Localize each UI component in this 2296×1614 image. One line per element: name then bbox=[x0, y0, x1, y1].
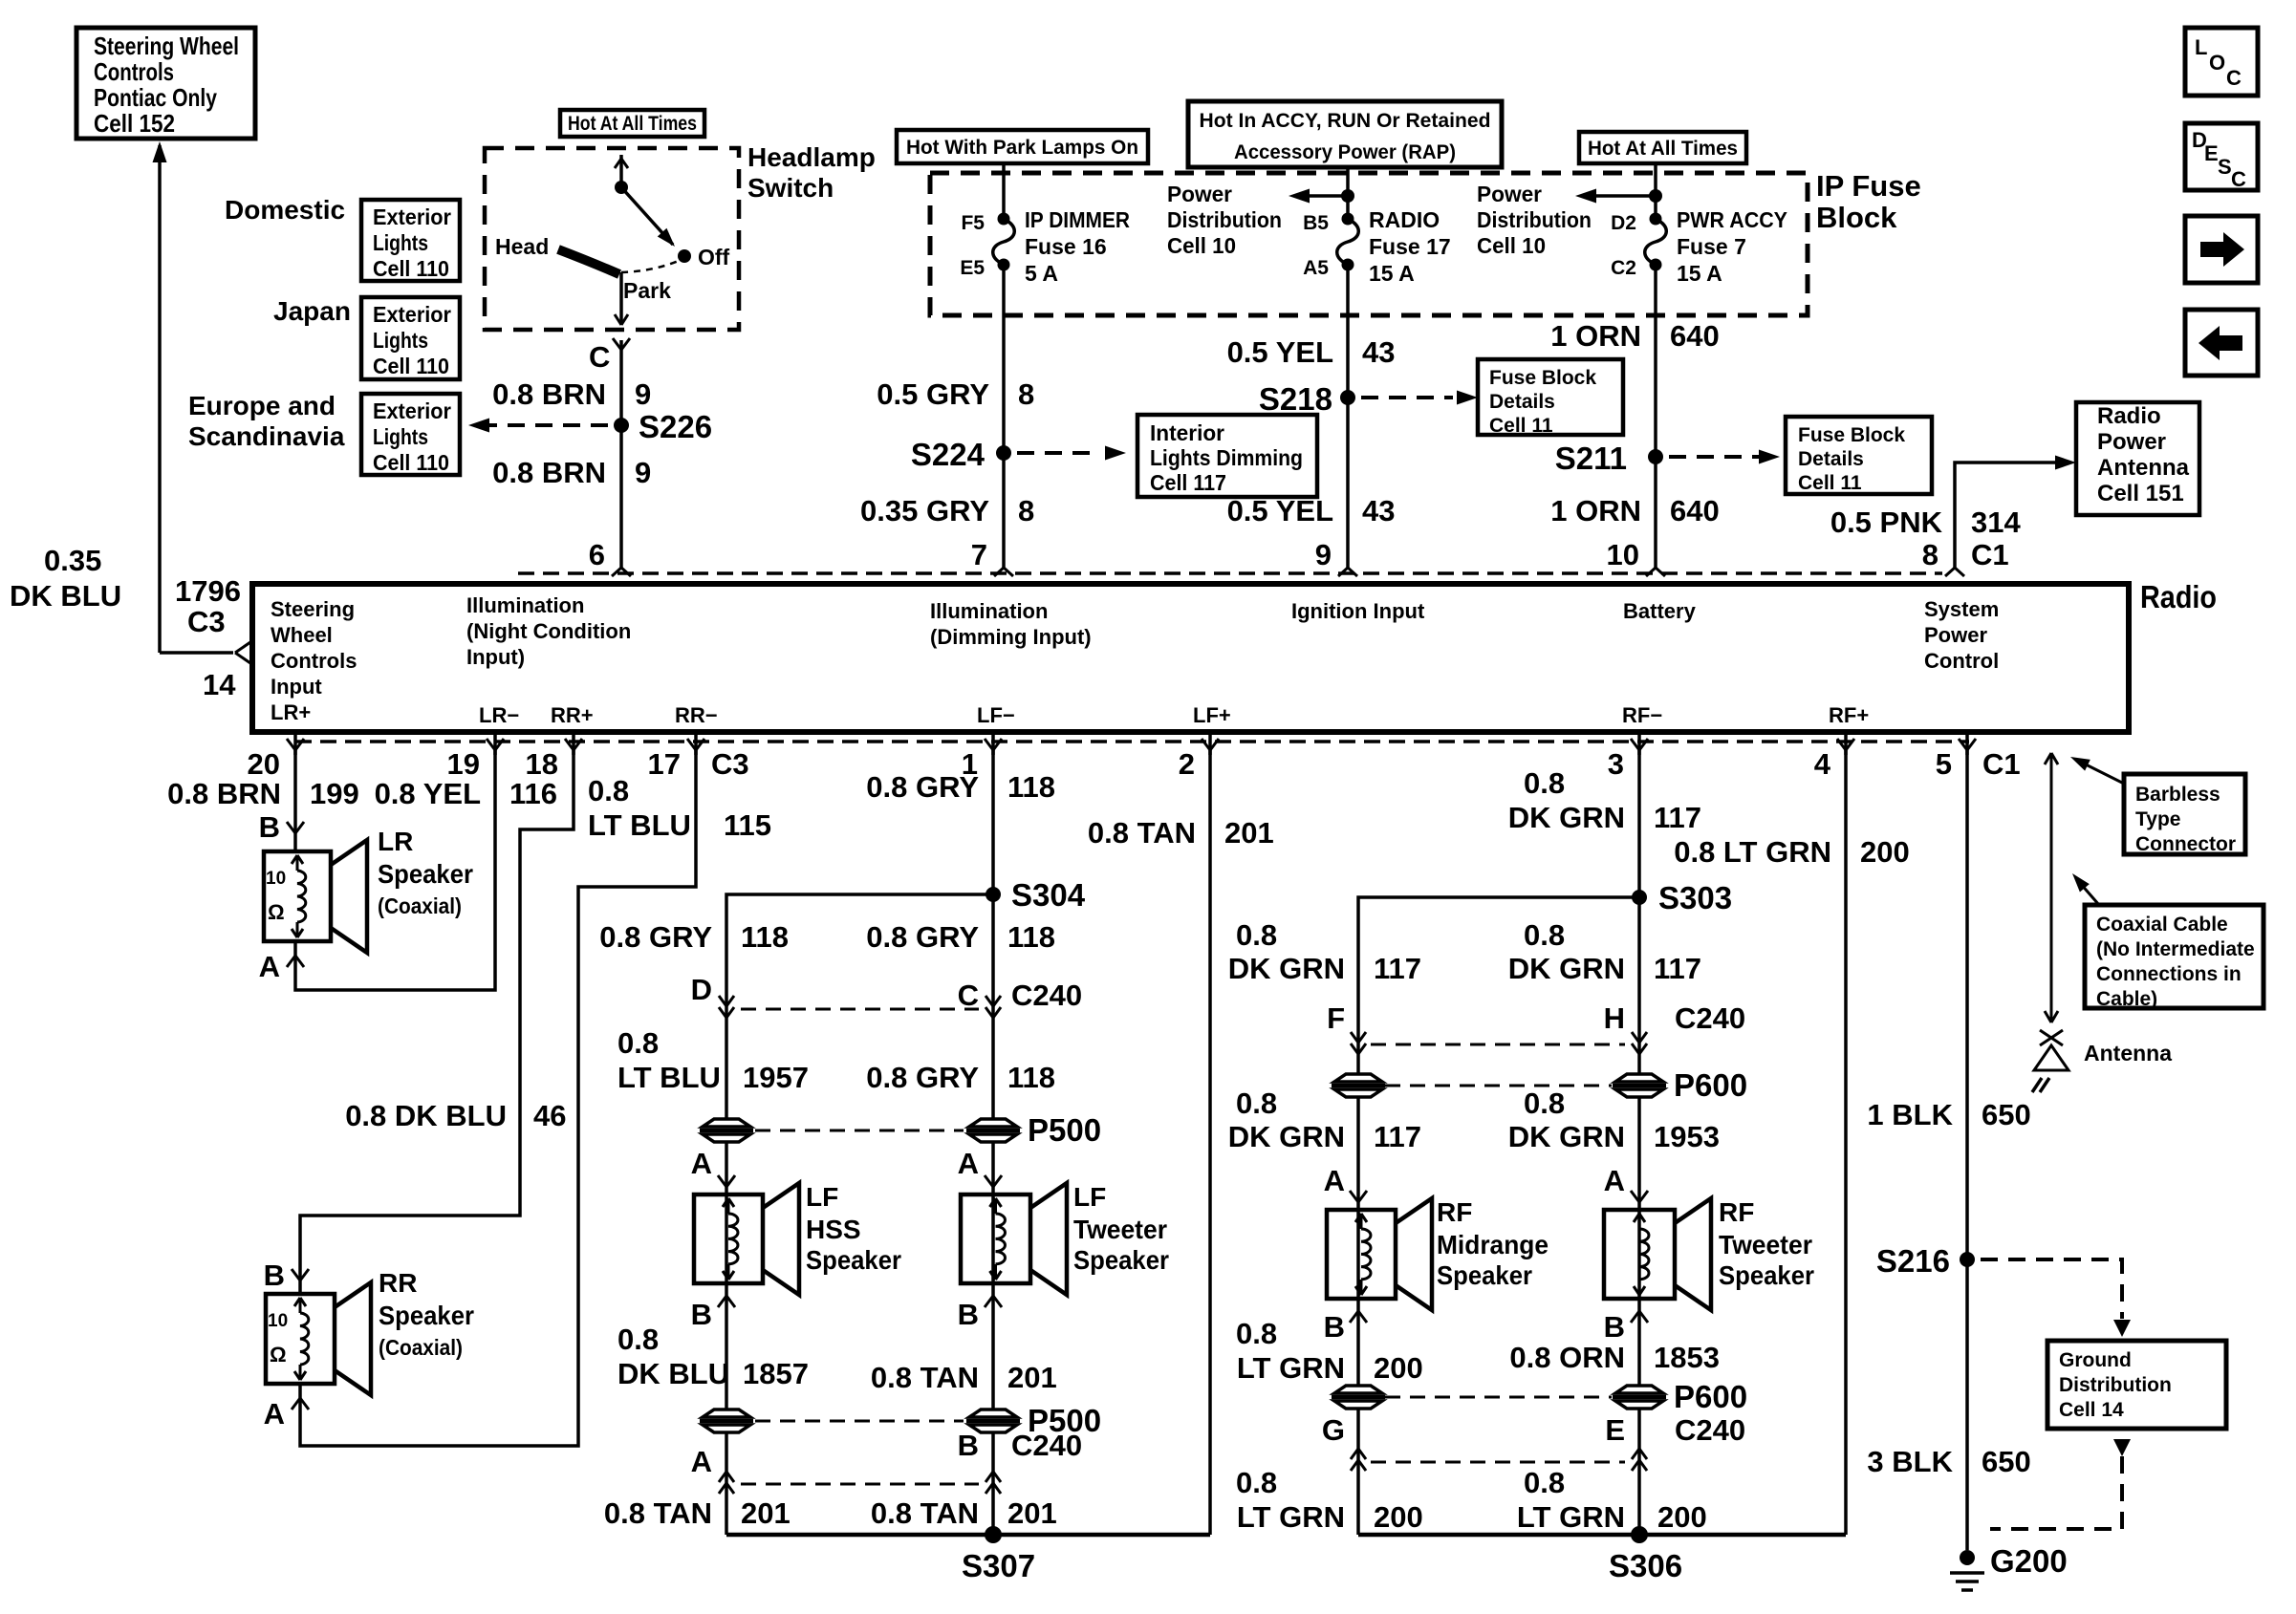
svg-text:D: D bbox=[691, 973, 712, 1006]
svg-text:0.8 GRY: 0.8 GRY bbox=[599, 920, 712, 954]
svg-text:Details: Details bbox=[1798, 448, 1864, 470]
svg-text:P600: P600 bbox=[1674, 1379, 1747, 1414]
svg-text:DK BLU: DK BLU bbox=[617, 1357, 729, 1390]
svg-text:201: 201 bbox=[1224, 816, 1274, 850]
svg-text:20: 20 bbox=[248, 747, 280, 781]
svg-text:117: 117 bbox=[1654, 801, 1701, 834]
svg-text:RR: RR bbox=[379, 1268, 417, 1298]
svg-text:LT GRN: LT GRN bbox=[1237, 1500, 1345, 1534]
svg-text:Head: Head bbox=[495, 234, 549, 259]
svg-text:117: 117 bbox=[1374, 1120, 1421, 1153]
svg-text:P500: P500 bbox=[1028, 1112, 1101, 1148]
svg-text:Antenna: Antenna bbox=[2097, 455, 2190, 481]
svg-text:C3: C3 bbox=[711, 747, 749, 781]
svg-text:Radio: Radio bbox=[2097, 403, 2161, 429]
svg-text:Input: Input bbox=[271, 675, 322, 699]
svg-text:C1: C1 bbox=[1982, 747, 2021, 781]
svg-text:Illumination: Illumination bbox=[930, 599, 1048, 623]
svg-text:1796: 1796 bbox=[175, 574, 241, 608]
svg-text:Japan: Japan bbox=[273, 296, 351, 326]
svg-text:0.8 TAN: 0.8 TAN bbox=[871, 1496, 979, 1530]
svg-text:0.8: 0.8 bbox=[1236, 918, 1277, 952]
svg-text:0.8 LT GRN: 0.8 LT GRN bbox=[1674, 835, 1831, 869]
svg-text:LF+: LF+ bbox=[1193, 703, 1231, 727]
svg-text:5: 5 bbox=[1936, 747, 1952, 781]
svg-text:201: 201 bbox=[741, 1496, 791, 1530]
svg-text:Hot With Park Lamps On: Hot With Park Lamps On bbox=[906, 137, 1138, 159]
svg-text:200: 200 bbox=[1860, 835, 1910, 869]
svg-text:9: 9 bbox=[635, 377, 651, 411]
svg-text:118: 118 bbox=[1007, 770, 1055, 804]
svg-text:0.8: 0.8 bbox=[588, 774, 629, 807]
svg-text:Speaker: Speaker bbox=[1719, 1260, 1814, 1290]
svg-text:5 A: 5 A bbox=[1025, 261, 1058, 286]
svg-text:Pontiac Only: Pontiac Only bbox=[94, 83, 217, 112]
svg-text:Speaker: Speaker bbox=[806, 1245, 901, 1275]
svg-text:Off: Off bbox=[698, 245, 730, 269]
svg-text:1953: 1953 bbox=[1654, 1120, 1720, 1153]
svg-text:Distribution: Distribution bbox=[2059, 1374, 2172, 1396]
svg-text:A: A bbox=[264, 1397, 285, 1431]
svg-text:Headlamp: Headlamp bbox=[747, 142, 876, 172]
svg-text:10: 10 bbox=[268, 1311, 288, 1331]
svg-text:C: C bbox=[589, 340, 610, 374]
svg-text:RF: RF bbox=[1719, 1197, 1754, 1227]
svg-text:S306: S306 bbox=[1609, 1548, 1682, 1583]
svg-text:A: A bbox=[691, 1147, 712, 1180]
svg-text:0.8 BRN: 0.8 BRN bbox=[492, 377, 606, 411]
svg-text:0.5 YEL: 0.5 YEL bbox=[1227, 494, 1333, 527]
svg-text:Lights: Lights bbox=[373, 424, 428, 449]
svg-text:S216: S216 bbox=[1876, 1243, 1950, 1279]
svg-text:1 BLK: 1 BLK bbox=[1867, 1098, 1953, 1131]
svg-text:0.8: 0.8 bbox=[617, 1323, 659, 1356]
svg-text:Hot At All Times: Hot At All Times bbox=[568, 113, 697, 135]
svg-text:17: 17 bbox=[648, 747, 681, 781]
svg-text:200: 200 bbox=[1374, 1500, 1423, 1534]
svg-text:E: E bbox=[2204, 141, 2219, 165]
svg-text:0.8: 0.8 bbox=[1524, 1466, 1565, 1499]
svg-text:Cell 152: Cell 152 bbox=[94, 109, 175, 138]
svg-text:116: 116 bbox=[509, 777, 557, 810]
svg-text:Cell 151: Cell 151 bbox=[2097, 481, 2184, 506]
svg-text:Steering Wheel: Steering Wheel bbox=[94, 32, 239, 60]
svg-text:Hot At All Times: Hot At All Times bbox=[1588, 138, 1738, 160]
svg-text:Fuse Block: Fuse Block bbox=[1489, 367, 1596, 389]
svg-text:S307: S307 bbox=[962, 1548, 1035, 1583]
svg-text:System: System bbox=[1924, 597, 1999, 621]
svg-text:Block: Block bbox=[1816, 201, 1897, 234]
svg-text:Speaker: Speaker bbox=[378, 859, 473, 889]
svg-text:PWR ACCY: PWR ACCY bbox=[1677, 207, 1787, 232]
svg-text:Park: Park bbox=[623, 278, 671, 303]
svg-text:LR: LR bbox=[378, 827, 413, 856]
svg-text:1853: 1853 bbox=[1654, 1341, 1720, 1374]
svg-text:LT GRN: LT GRN bbox=[1237, 1351, 1345, 1385]
svg-text:Fuse Block: Fuse Block bbox=[1798, 424, 1905, 446]
svg-text:0.8 YEL: 0.8 YEL bbox=[375, 777, 481, 810]
svg-text:S224: S224 bbox=[911, 437, 986, 472]
svg-text:Cell 14: Cell 14 bbox=[2059, 1399, 2124, 1421]
svg-text:Ω: Ω bbox=[270, 1343, 287, 1367]
svg-text:(Coaxial): (Coaxial) bbox=[379, 1335, 463, 1360]
svg-text:43: 43 bbox=[1362, 335, 1395, 369]
svg-text:Domestic: Domestic bbox=[225, 195, 345, 225]
svg-text:H: H bbox=[1604, 1001, 1625, 1035]
svg-text:Hot In ACCY, RUN Or Retained: Hot In ACCY, RUN Or Retained bbox=[1200, 110, 1491, 132]
svg-text:117: 117 bbox=[1654, 952, 1701, 985]
svg-text:Power: Power bbox=[1924, 623, 1987, 647]
svg-text:0.8: 0.8 bbox=[1524, 918, 1565, 952]
svg-text:0.8 BRN: 0.8 BRN bbox=[167, 777, 281, 810]
svg-text:8: 8 bbox=[1922, 538, 1939, 571]
svg-text:DK BLU: DK BLU bbox=[10, 579, 121, 613]
svg-text:0.8 GRY: 0.8 GRY bbox=[866, 920, 979, 954]
svg-text:Details: Details bbox=[1489, 391, 1555, 413]
svg-text:200: 200 bbox=[1657, 1500, 1707, 1534]
svg-text:1 ORN: 1 ORN bbox=[1550, 319, 1641, 353]
svg-text:15 A: 15 A bbox=[1369, 261, 1415, 286]
svg-text:Type: Type bbox=[2135, 808, 2180, 830]
svg-text:C1: C1 bbox=[1971, 538, 2009, 571]
svg-text:A: A bbox=[1604, 1164, 1625, 1197]
svg-text:RADIO: RADIO bbox=[1369, 207, 1440, 232]
svg-text:3: 3 bbox=[1608, 747, 1624, 781]
svg-text:0.8: 0.8 bbox=[1236, 1087, 1277, 1120]
svg-text:B: B bbox=[691, 1298, 712, 1331]
svg-text:Cell 110: Cell 110 bbox=[373, 450, 449, 475]
svg-text:Controls: Controls bbox=[271, 649, 357, 673]
svg-text:(No Intermediate: (No Intermediate bbox=[2096, 938, 2255, 960]
svg-text:D2: D2 bbox=[1611, 212, 1636, 234]
svg-text:9: 9 bbox=[635, 456, 651, 489]
svg-text:RF+: RF+ bbox=[1829, 703, 1869, 727]
svg-text:(Dimming Input): (Dimming Input) bbox=[930, 625, 1092, 649]
svg-text:Speaker: Speaker bbox=[1437, 1260, 1532, 1290]
svg-text:RR+: RR+ bbox=[551, 703, 594, 727]
svg-text:Midrange: Midrange bbox=[1437, 1230, 1549, 1259]
svg-text:Connections in: Connections in bbox=[2096, 963, 2242, 985]
svg-text:3 BLK: 3 BLK bbox=[1867, 1445, 1953, 1478]
svg-text:LT BLU: LT BLU bbox=[588, 808, 691, 842]
svg-text:650: 650 bbox=[1982, 1098, 2031, 1131]
svg-text:Cell 110: Cell 110 bbox=[373, 354, 449, 378]
svg-text:A: A bbox=[958, 1147, 979, 1180]
svg-text:LT BLU: LT BLU bbox=[617, 1061, 721, 1094]
svg-text:C3: C3 bbox=[187, 605, 226, 638]
svg-text:43: 43 bbox=[1362, 494, 1395, 527]
svg-text:G200: G200 bbox=[1990, 1543, 2068, 1579]
svg-text:115: 115 bbox=[724, 808, 771, 842]
svg-text:F5: F5 bbox=[961, 212, 985, 234]
svg-text:Ground: Ground bbox=[2059, 1349, 2132, 1371]
svg-text:6: 6 bbox=[589, 538, 605, 571]
svg-text:Exterior: Exterior bbox=[373, 398, 451, 423]
svg-text:LR−: LR− bbox=[479, 703, 519, 727]
svg-text:DK GRN: DK GRN bbox=[1508, 801, 1625, 834]
svg-text:Antenna: Antenna bbox=[2084, 1041, 2172, 1065]
svg-text:Fuse 7: Fuse 7 bbox=[1677, 234, 1746, 259]
svg-text:HSS: HSS bbox=[806, 1215, 861, 1244]
svg-text:118: 118 bbox=[1007, 1061, 1055, 1094]
svg-text:L: L bbox=[2195, 35, 2207, 59]
svg-text:LF: LF bbox=[806, 1182, 838, 1212]
svg-text:0.35: 0.35 bbox=[44, 544, 101, 577]
svg-text:Fuse 17: Fuse 17 bbox=[1369, 234, 1451, 259]
svg-text:0.8 TAN: 0.8 TAN bbox=[871, 1361, 979, 1394]
svg-text:14: 14 bbox=[203, 668, 236, 701]
svg-text:C240: C240 bbox=[1675, 1413, 1745, 1447]
svg-text:Cell 110: Cell 110 bbox=[373, 256, 449, 281]
svg-text:RF−: RF− bbox=[1622, 703, 1662, 727]
svg-text:118: 118 bbox=[1007, 920, 1055, 954]
svg-text:201: 201 bbox=[1007, 1496, 1057, 1530]
svg-text:B: B bbox=[1324, 1310, 1345, 1344]
svg-text:0.8 BRN: 0.8 BRN bbox=[492, 456, 606, 489]
svg-text:Illumination: Illumination bbox=[466, 593, 584, 617]
svg-text:0.8: 0.8 bbox=[1524, 766, 1565, 800]
svg-text:(Night Condition: (Night Condition bbox=[466, 619, 631, 643]
svg-text:0.5 GRY: 0.5 GRY bbox=[877, 377, 989, 411]
svg-text:P600: P600 bbox=[1674, 1067, 1747, 1103]
svg-text:7: 7 bbox=[971, 538, 987, 571]
svg-text:Distribution: Distribution bbox=[1477, 207, 1592, 232]
svg-text:640: 640 bbox=[1670, 319, 1720, 353]
svg-text:1 ORN: 1 ORN bbox=[1550, 494, 1641, 527]
svg-text:2: 2 bbox=[1179, 747, 1195, 781]
svg-text:0.8 TAN: 0.8 TAN bbox=[1088, 816, 1196, 850]
svg-text:B: B bbox=[958, 1298, 979, 1331]
svg-text:DK GRN: DK GRN bbox=[1228, 1120, 1345, 1153]
svg-text:Switch: Switch bbox=[747, 173, 834, 203]
svg-text:A: A bbox=[691, 1445, 712, 1478]
svg-text:Exterior: Exterior bbox=[373, 302, 451, 327]
svg-text:C240: C240 bbox=[1011, 979, 1082, 1012]
svg-text:9: 9 bbox=[1315, 538, 1332, 571]
svg-text:117: 117 bbox=[1374, 952, 1421, 985]
svg-text:IP Fuse: IP Fuse bbox=[1816, 169, 1921, 203]
svg-text:4: 4 bbox=[1814, 747, 1831, 781]
svg-text:B: B bbox=[1604, 1310, 1625, 1344]
svg-text:Fuse 16: Fuse 16 bbox=[1025, 234, 1107, 259]
svg-text:B5: B5 bbox=[1303, 212, 1329, 234]
svg-text:DK GRN: DK GRN bbox=[1228, 952, 1345, 985]
svg-text:Accessory Power (RAP): Accessory Power (RAP) bbox=[1234, 141, 1456, 163]
svg-text:1857: 1857 bbox=[743, 1357, 809, 1390]
svg-text:1957: 1957 bbox=[743, 1061, 809, 1094]
svg-text:LT GRN: LT GRN bbox=[1517, 1500, 1625, 1534]
svg-text:640: 640 bbox=[1670, 494, 1720, 527]
svg-text:Lights: Lights bbox=[373, 328, 428, 353]
svg-text:Europe and: Europe and bbox=[188, 391, 336, 420]
svg-text:Lights: Lights bbox=[373, 230, 428, 255]
svg-text:18: 18 bbox=[526, 747, 558, 781]
svg-text:Ignition Input: Ignition Input bbox=[1291, 599, 1425, 623]
svg-text:A5: A5 bbox=[1303, 257, 1329, 279]
svg-text:Controls: Controls bbox=[94, 57, 174, 86]
svg-text:G: G bbox=[1322, 1413, 1345, 1447]
svg-text:RF: RF bbox=[1437, 1197, 1472, 1227]
svg-text:0.35 GRY: 0.35 GRY bbox=[860, 494, 989, 527]
svg-text:0.8: 0.8 bbox=[1236, 1317, 1277, 1350]
svg-text:S211: S211 bbox=[1555, 441, 1627, 476]
svg-text:Control: Control bbox=[1924, 649, 1999, 673]
svg-text:Lights Dimming: Lights Dimming bbox=[1150, 445, 1303, 470]
svg-text:RR−: RR− bbox=[675, 703, 718, 727]
svg-text:Distribution: Distribution bbox=[1167, 207, 1282, 232]
svg-text:IP DIMMER: IP DIMMER bbox=[1025, 207, 1130, 232]
svg-text:Scandinavia: Scandinavia bbox=[188, 421, 345, 451]
svg-text:314: 314 bbox=[1971, 506, 2021, 539]
svg-text:C: C bbox=[2231, 167, 2246, 191]
svg-text:C240: C240 bbox=[1675, 1001, 1745, 1035]
svg-text:8: 8 bbox=[1018, 377, 1034, 411]
svg-text:Exterior: Exterior bbox=[373, 204, 451, 229]
svg-text:0.5 PNK: 0.5 PNK bbox=[1830, 506, 1943, 539]
svg-text:Cell 117: Cell 117 bbox=[1150, 470, 1226, 495]
svg-text:Barbless: Barbless bbox=[2135, 784, 2220, 806]
svg-text:DK GRN: DK GRN bbox=[1508, 952, 1625, 985]
svg-text:10: 10 bbox=[266, 869, 286, 889]
svg-text:LR+: LR+ bbox=[271, 700, 311, 724]
svg-text:0.8 DK BLU: 0.8 DK BLU bbox=[345, 1099, 507, 1132]
svg-text:8: 8 bbox=[1018, 494, 1034, 527]
svg-text:C2: C2 bbox=[1611, 257, 1636, 279]
svg-text:15 A: 15 A bbox=[1677, 261, 1722, 286]
svg-text:LF: LF bbox=[1073, 1182, 1106, 1212]
svg-text:Speaker: Speaker bbox=[379, 1301, 474, 1330]
svg-text:S304: S304 bbox=[1011, 877, 1086, 913]
svg-text:Connector: Connector bbox=[2135, 833, 2236, 855]
svg-text:Cell 11: Cell 11 bbox=[1798, 472, 1862, 494]
svg-text:10: 10 bbox=[1607, 538, 1639, 571]
svg-text:Cell 10: Cell 10 bbox=[1167, 233, 1236, 258]
svg-text:19: 19 bbox=[447, 747, 480, 781]
svg-text:Wheel: Wheel bbox=[271, 623, 333, 647]
svg-text:650: 650 bbox=[1982, 1445, 2031, 1478]
svg-text:0.5 YEL: 0.5 YEL bbox=[1227, 335, 1333, 369]
svg-text:Coaxial Cable: Coaxial Cable bbox=[2096, 914, 2228, 936]
svg-text:S303: S303 bbox=[1658, 880, 1732, 915]
svg-text:B: B bbox=[259, 810, 280, 844]
svg-text:Radio: Radio bbox=[2140, 579, 2217, 614]
svg-text:O: O bbox=[2209, 51, 2225, 75]
svg-text:E5: E5 bbox=[960, 257, 985, 279]
svg-text:C: C bbox=[2226, 66, 2242, 90]
svg-text:C240: C240 bbox=[1011, 1429, 1082, 1462]
svg-text:F: F bbox=[1327, 1001, 1345, 1035]
svg-text:0.8 GRY: 0.8 GRY bbox=[866, 1061, 979, 1094]
svg-text:46: 46 bbox=[533, 1099, 566, 1132]
svg-text:S218: S218 bbox=[1259, 381, 1332, 417]
svg-text:Cell 11: Cell 11 bbox=[1489, 415, 1553, 437]
svg-text:(Coaxial): (Coaxial) bbox=[378, 893, 462, 918]
svg-text:200: 200 bbox=[1374, 1351, 1423, 1385]
svg-text:B: B bbox=[264, 1259, 285, 1292]
svg-text:E: E bbox=[1605, 1413, 1625, 1447]
svg-text:B: B bbox=[958, 1429, 979, 1462]
svg-text:Steering: Steering bbox=[271, 597, 355, 621]
svg-text:DK GRN: DK GRN bbox=[1508, 1120, 1625, 1153]
svg-text:Battery: Battery bbox=[1623, 599, 1697, 623]
svg-text:0.8 GRY: 0.8 GRY bbox=[866, 770, 979, 804]
svg-text:S226: S226 bbox=[639, 409, 712, 444]
svg-text:C: C bbox=[958, 979, 979, 1012]
svg-text:0.8: 0.8 bbox=[617, 1026, 659, 1060]
svg-text:Tweeter: Tweeter bbox=[1073, 1215, 1167, 1244]
svg-text:Power: Power bbox=[1167, 182, 1232, 206]
svg-text:0.8: 0.8 bbox=[1236, 1466, 1277, 1499]
svg-text:Speaker: Speaker bbox=[1073, 1245, 1169, 1275]
svg-text:0.8 TAN: 0.8 TAN bbox=[604, 1496, 712, 1530]
svg-text:0.8 ORN: 0.8 ORN bbox=[1509, 1341, 1625, 1374]
svg-text:Input): Input) bbox=[466, 645, 525, 669]
svg-text:A: A bbox=[259, 950, 280, 983]
svg-text:Power: Power bbox=[1477, 182, 1542, 206]
svg-text:199: 199 bbox=[310, 777, 359, 810]
svg-text:0.8: 0.8 bbox=[1524, 1087, 1565, 1120]
svg-text:Power: Power bbox=[2097, 429, 2166, 455]
svg-text:201: 201 bbox=[1007, 1361, 1057, 1394]
svg-text:Cell 10: Cell 10 bbox=[1477, 233, 1546, 258]
svg-text:S: S bbox=[2218, 155, 2232, 179]
svg-text:118: 118 bbox=[741, 920, 789, 954]
svg-text:LF−: LF− bbox=[977, 703, 1015, 727]
svg-text:A: A bbox=[1324, 1164, 1345, 1197]
svg-text:Ω: Ω bbox=[268, 900, 285, 924]
svg-text:Cable): Cable) bbox=[2096, 988, 2157, 1010]
svg-text:Tweeter: Tweeter bbox=[1719, 1230, 1812, 1259]
svg-text:Interior: Interior bbox=[1150, 420, 1224, 445]
